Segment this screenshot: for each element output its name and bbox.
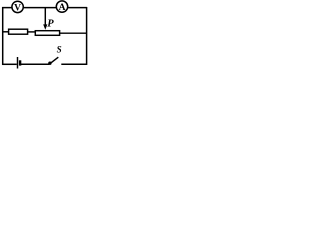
svg-text:V: V <box>14 3 21 13</box>
wire resistor to rheostat <box>27 31 35 33</box>
resistor R <box>9 29 28 34</box>
wire rheostat to right vertical <box>59 32 87 34</box>
wire middle left <box>2 31 9 33</box>
ammeter A1 <box>56 1 67 12</box>
wiper arrowhead P <box>43 24 47 29</box>
voltmeter V1 <box>12 1 23 12</box>
rheostat (slide resistor) <box>35 31 59 36</box>
switch S blade <box>49 57 58 64</box>
wire right vertical <box>86 7 88 65</box>
svg-text:S: S <box>57 45 62 55</box>
wire bottom left <box>2 63 17 65</box>
battery short thick plate (-) <box>19 60 21 65</box>
svg-text:P: P <box>47 18 54 29</box>
battery long plate (+) <box>17 57 19 69</box>
switch S pivot dot <box>48 62 51 65</box>
wire wiper drop from top <box>44 8 46 26</box>
wire bottom middle <box>21 63 49 65</box>
wire left vertical <box>2 7 4 65</box>
wire top <box>2 7 87 9</box>
svg-text:A: A <box>59 3 66 13</box>
wire bottom right <box>61 63 87 65</box>
